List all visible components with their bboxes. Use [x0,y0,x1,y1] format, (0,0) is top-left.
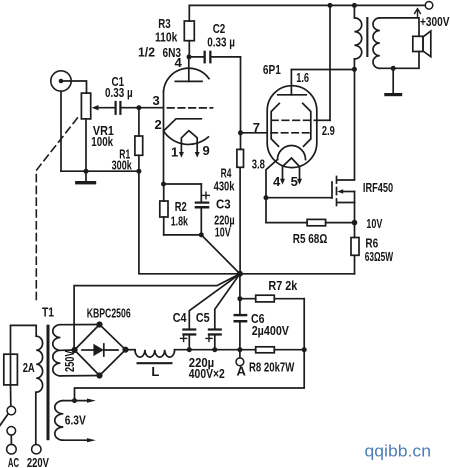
svg-text:6.3V: 6.3V [65,413,86,428]
wire C2 to grid node of V2 [240,57,242,133]
resistor R2 [160,184,202,235]
wire diagonal R2/C3 bottom to ground junction [201,235,240,274]
svg-text:+300V: +300V [420,14,450,29]
node bridge right [122,347,128,353]
wire ground junction to C4 [189,274,240,329]
wire OPT secondary top to speaker [380,18,419,36]
inductor L [126,350,240,364]
capacitor C1 [115,101,139,115]
wire ground line right [240,273,355,275]
V1 heater arrow pin 1 [179,152,184,158]
fuse 2A [4,354,18,385]
svg-text:1/2: 1/2 [138,45,155,60]
svg-text:R7 2k: R7 2k [268,278,298,293]
node heater winding top [72,398,77,403]
wire ground junction to bridge minus [74,274,240,350]
svg-text:R2: R2 [175,199,187,214]
resistor R4 [237,133,244,274]
svg-text:2A: 2A [23,360,35,375]
node C5 on rail [212,347,217,352]
resistor R5 [266,219,355,225]
wire mains top to primary [11,325,37,354]
wire cathode lead 3.8 [266,160,278,198]
V1 cathode (pin 2) [164,119,202,131]
potentiometer VR1 [81,93,90,171]
wire input ground line [61,170,139,172]
tube V1 envelope (1/2 6N3) [164,68,210,144]
svg-text:3: 3 [153,93,160,108]
wire switch to AC terminal [10,435,12,444]
node R1 ground [136,169,141,174]
svg-text:C3: C3 [216,196,231,211]
transformer OPT secondary winding [373,18,380,68]
resistor R1 [135,108,143,172]
transformer T1 primary 220V winding [36,336,42,392]
svg-text:T1: T1 [42,304,54,319]
C5 polarity plus [206,335,212,341]
svg-text:0.33 µ: 0.33 µ [105,85,133,100]
svg-text:2: 2 [155,117,162,132]
wire 250V bottom to bridge [60,375,99,377]
node bridge top [96,321,102,327]
transformer OPT core [366,17,368,57]
V2 heater arrow pin 4 [280,179,285,185]
wire ground bus down from R1 [139,171,240,274]
terminal AC [7,444,17,454]
svg-text:C4: C4 [173,310,187,325]
node grid V2 junction [238,130,243,135]
svg-text:430k: 430k [214,179,235,194]
svg-text:KBPC2506: KBPC2506 [87,306,131,321]
node screen to rail [328,3,333,8]
wire heater bottom arrow [63,438,96,442]
svg-text:220V: 220V [27,455,49,468]
svg-text:3.8: 3.8 [252,157,265,172]
node bridge bottom [96,372,102,378]
svg-text:qqibb.cn: qqibb.cn [365,442,432,461]
svg-text:6P1: 6P1 [263,62,281,77]
wire cathode down to R2/C3 [163,131,165,184]
V2 beam plate right [303,103,311,146]
ground symbol input [75,171,96,184]
terminal 220V [32,445,41,454]
svg-text:110k: 110k [155,30,178,45]
wire ground junction to C5 [215,274,240,329]
wire top B+ rail [189,4,425,6]
node C1/R1/grid junction [136,105,141,110]
wire ground junction down to R7/C6 [239,274,241,299]
node B+ rail / C6 bottom [237,347,242,352]
switch lever [0,415,8,426]
switch contact top [7,406,16,415]
svg-text:L: L [151,364,159,379]
svg-text:1.6: 1.6 [296,70,309,85]
transformer T1 core [47,325,50,441]
wire cathode junction down to R5 [265,198,267,223]
V2 cathode arc (pins 3,8) [278,146,306,160]
svg-text:10V: 10V [366,216,382,231]
V2 heater filament [283,158,300,179]
wire primary bottom to 220V terminal [35,392,37,444]
node 10V source [352,220,358,226]
wire 250V center tap to bridge left [60,349,74,351]
wire 250V top to bridge [60,324,99,326]
wire grid node to pin 7 of V2 [241,132,268,134]
V2 plate (pins 1,6) [278,70,355,95]
transformer OPT primary winding [354,5,361,69]
C4 polarity plus [181,335,187,341]
V2 beam plate left [271,103,279,146]
svg-text:R5 68Ω: R5 68Ω [293,231,328,246]
wire fuse to switch [10,385,12,406]
V1 heater arrow pin 9 [195,152,200,158]
terminal +300V [425,2,433,10]
transformer T1 secondary 250V winding [53,325,61,376]
svg-text:A: A [237,364,247,379]
svg-text:250V: 250V [63,350,77,372]
node plate of V1 / junction R3-C2 [187,54,192,59]
svg-text:100k: 100k [91,134,113,149]
input jack J1 [51,71,71,91]
svg-text:R8 20k7W: R8 20k7W [249,359,295,374]
node V2 cathode / gate junction [264,195,269,200]
V2 heater arrow pin 5 [297,179,302,185]
wire pin 3 to grid [139,107,164,109]
capacitor C5 [208,328,222,349]
node R7/R8 right junction [302,347,307,352]
wire OPT secondary bottom to speaker [380,52,419,69]
node rail to OPT primary [352,3,357,8]
terminal A [236,350,244,366]
capacitor C4 [182,328,196,349]
svg-text:400V×2: 400V×2 [189,366,225,381]
svg-text:4: 4 [175,55,183,70]
V1 plate (pin 4) [175,57,202,82]
node V1 cathode junction [161,182,166,187]
svg-text:1: 1 [171,145,178,160]
bridge rectifier KBPC2506 [75,325,126,376]
dashed shield line [36,118,77,300]
wire heater top arrow [63,399,96,403]
svg-text:0.33 µ: 0.33 µ [207,34,235,49]
switch contact bottom [7,427,16,436]
transformer T1 heater 6.3V winding [55,401,64,441]
speaker [413,31,431,57]
wire jack to VR1 top [61,81,87,93]
svg-text:4: 4 [273,174,281,189]
svg-text:10V: 10V [215,224,231,239]
node OPT primary / plate / drain [352,67,357,72]
node bridge left [71,347,77,353]
svg-text:IRF450: IRF450 [363,180,393,195]
V1 heater filament [181,131,197,153]
svg-text:1.8k: 1.8k [171,214,189,229]
node R7/C6 junction [237,296,242,301]
svg-text:7: 7 [253,120,260,135]
svg-text:AC: AC [8,455,19,468]
tube V2 envelope 6P1 [267,86,317,168]
resistor R7 [240,295,304,350]
svg-text:2µ400V: 2µ400V [252,323,290,338]
node VR1 ground [84,169,89,174]
svg-text:63Ω5W: 63Ω5W [365,249,394,264]
resistor R6 [351,223,359,274]
V2 screen grid dashed (pins 2,9) [272,5,331,120]
resistor R8 [240,347,304,353]
capacitor C3 [164,184,210,235]
capacitor C2 [189,51,241,64]
wire jack sleeve down to ground line [60,91,62,171]
svg-text:C5: C5 [196,310,210,325]
svg-text:2.9: 2.9 [322,123,335,138]
capacitor C6 [234,299,248,350]
svg-text:9: 9 [203,143,210,158]
C3 polarity plus [203,192,210,199]
svg-text:5: 5 [291,174,298,189]
V2 control grid dashed (pin 7) [271,132,311,134]
V1 grid dashed (pin 3) [168,107,213,109]
node C4 on rail [187,347,192,352]
node main ground junction [237,271,243,277]
node speaker ground tap [391,66,396,71]
ground symbol speaker [384,68,402,96]
arrow A to +300V [415,9,421,18]
VR1 wiper arrow [92,105,115,110]
transistor Q1 IRF450 [266,69,355,222]
wire heater bias line [75,350,305,401]
node R2/C3 bottom [199,232,204,237]
resistor R3 [184,5,194,56]
